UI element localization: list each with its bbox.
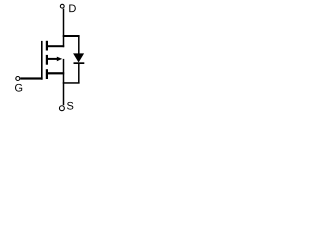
wire: bottom branch to diode [63,82,80,84]
diode D1 anode triangle [73,53,84,62]
label D [69,5,76,13]
wire: top branch to diode [63,35,80,37]
transistor Q1 channel drain segment [46,41,48,51]
diode D1 cathode bar [74,62,85,64]
transistor Q1 body arrow (P-channel, pointing out) [57,57,62,62]
wire: source riser (body/source bus down to S terminal) [63,59,65,105]
wire: gate lead to G terminal [20,77,42,79]
terminal S [59,106,64,111]
label S [67,102,73,110]
wire: drain lead [48,45,64,47]
wire: source lead [48,72,64,74]
terminal D [60,4,64,8]
transistor Q1 gate bar [41,41,43,80]
wire: drain riser (D terminal down to drain lead) [63,9,65,48]
wire: body lead [48,58,58,60]
label G [15,84,22,92]
wire: diode anode riser [78,36,80,54]
transistor Q1 channel body segment [46,55,48,65]
wire: diode cathode drop [78,64,80,83]
terminal G [16,77,20,81]
transistor Q1 channel source segment [46,69,48,79]
